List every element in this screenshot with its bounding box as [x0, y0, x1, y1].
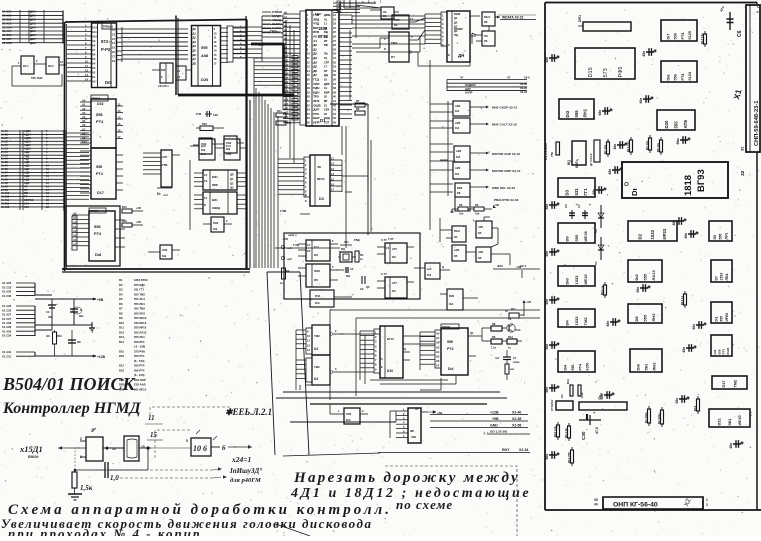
svg-text:555: 555 [673, 121, 678, 129]
svg-text:R1 С3 М15: R1 С3 М15 [544, 143, 548, 160]
svg-text:555: 555 [642, 273, 647, 281]
resistor R16 on PCB [693, 396, 700, 414]
logic gate D5.3 [452, 245, 476, 261]
resistor R17 vertical [505, 364, 515, 380]
svg-text:того: того [28, 455, 39, 460]
svg-text:А6: А6 [92, 53, 96, 57]
wire D1 pin bus from left [254, 16, 283, 85]
svg-text:Q1: Q1 [470, 331, 474, 335]
svg-text:SL: SL [324, 17, 328, 21]
svg-text:R1b 1к: R1b 1к [600, 285, 604, 295]
svg-text:( 6 - 156): ( 6 - 156) [134, 345, 145, 349]
svg-text:X2-6: X2-6 [524, 76, 530, 80]
resistor R1b on PCB [600, 282, 607, 298]
svg-text:556: 556 [571, 365, 575, 371]
svg-text:D5: D5 [478, 231, 482, 235]
svg-text:С21.26.1: С21.26.1 [158, 84, 169, 88]
resistor R6 [355, 107, 365, 115]
svg-text:8МГц: 8МГц [575, 160, 579, 168]
svg-text:МНУ СULT X2-18: МНУ СULT X2-18 [492, 123, 517, 127]
svg-text:R15: R15 [122, 205, 127, 209]
svg-text:ВQ: ВQ [567, 160, 571, 165]
svg-text:Q1: Q1 [230, 177, 234, 181]
svg-text:Dι: Dι [157, 192, 161, 196]
svg-text:ИР23: ИР23 [662, 228, 667, 239]
svg-text:561 ИЕ10: 561 ИЕ10 [134, 387, 147, 391]
wire main frame box [62, 20, 250, 273]
svg-text:68н: 68н [545, 454, 549, 460]
svg-text:R: R [204, 203, 206, 207]
node X2-4 label [493, 264, 540, 269]
capacitor C7 [495, 350, 520, 364]
svg-text:Dι: Dι [630, 188, 639, 196]
wire D1 to D11 interconnects [352, 14, 425, 52]
wire stubs right of D20 [227, 25, 246, 62]
crystal BQ [338, 247, 356, 262]
capacitor 68н on PCB [684, 230, 699, 238]
svg-text:C2: C2 [204, 179, 208, 183]
svg-text:ФАУ: ФАУ [497, 264, 503, 268]
svg-text:D4: D4 [454, 235, 458, 239]
svg-text:556 РТ4: 556 РТ4 [134, 340, 145, 344]
svg-text:А8: А8 [92, 44, 96, 48]
svg-text:R2 330к: R2 330к [644, 412, 648, 423]
svg-text:A5: A5 [73, 234, 77, 238]
svg-text:D16: D16 [97, 102, 103, 106]
svg-text:47,0: 47,0 [595, 427, 599, 434]
IC D3 on PCB [558, 178, 595, 197]
transistor V3 [507, 317, 521, 332]
svg-text:а16: а16 [284, 80, 289, 84]
IC D17 556 РТ4 [80, 148, 123, 199]
svg-text:A4: A4 [73, 229, 77, 233]
svg-text:X1 А27: X1 А27 [2, 313, 12, 317]
logic gate D19 [148, 245, 180, 259]
svg-text:ВЧ2: ВЧ2 [315, 294, 321, 298]
svg-text:MOTOR ОФР X2-10: MOTOR ОФР X2-10 [492, 169, 521, 173]
node handwriting caption line2 [1, 516, 372, 531]
IC D11 ПИ6 [425, 11, 480, 62]
svg-text:R7 10к: R7 10к [603, 144, 607, 154]
IC D11 on PCB [711, 302, 732, 323]
svg-text:1,1к: 1,1к [491, 346, 497, 350]
IC D6b on PCB [712, 376, 747, 389]
svg-text:Dч5: Dч5 [201, 152, 206, 156]
svg-text:Д4: Д4 [454, 29, 458, 33]
svg-text:а11: а11 [284, 58, 289, 62]
svg-text:D6: D6 [478, 256, 482, 260]
svg-text:Е: Е [381, 365, 383, 369]
svg-text:Q3: Q3 [230, 186, 234, 190]
svg-text:АИ3: АИ3 [455, 121, 461, 125]
svg-text:Т-РГ: Т-РГ [388, 237, 394, 241]
svg-text:556: 556 [447, 340, 453, 344]
svg-text:X1 А25: X1 А25 [2, 281, 12, 285]
node handwriting caption line3 [8, 526, 201, 541]
svg-text:R5 10к: R5 10к [656, 142, 660, 152]
resistor R2 on PCB [644, 406, 651, 426]
wire D1 left pins [283, 11, 306, 125]
svg-text:ВИ3: ВИ3 [457, 186, 463, 190]
svg-text:а12: а12 [284, 63, 289, 67]
node signal labels left of D1 [258, 10, 283, 47]
svg-text:D: D [384, 47, 386, 51]
logic gate D19.1 [190, 138, 224, 154]
svg-text:D15: D15 [588, 67, 594, 77]
svg-text:E: E [448, 53, 450, 57]
svg-text:68н: 68н [545, 387, 549, 393]
svg-text:РФ5: РФ5 [618, 67, 624, 78]
ground symbol power [35, 312, 95, 332]
svg-text:Dι2: Dι2 [455, 109, 460, 113]
resistor R1 750 on PCB [544, 142, 560, 160]
svg-text:ЧТЕНД: ЧТЕНД [272, 18, 281, 22]
svg-text:+: + [56, 302, 58, 306]
node handwriting caption line1 [8, 502, 392, 518]
svg-text:А11: А11 [92, 30, 97, 34]
svg-text:АИ1: АИ1 [478, 250, 484, 254]
capacitor 68н on PCB [675, 395, 690, 403]
svg-text:для р40ГМ: для р40ГМ [230, 477, 261, 484]
logic gate D19.3 [190, 160, 232, 232]
svg-text:Dι7: Dι7 [666, 34, 670, 40]
svg-text:C1: C1 [204, 173, 208, 177]
svg-text:ИЕ19: ИЕ19 [583, 231, 588, 242]
svg-text:Д2: Д2 [193, 36, 197, 40]
svg-text:ДД: ДД [324, 73, 328, 77]
svg-text:A3: A3 [82, 111, 86, 115]
svg-text:A1: A1 [82, 103, 86, 107]
svg-text:ИНДЕКС: ИНДЕКС [465, 83, 476, 87]
svg-text:при проходах № 4 - копир: при проходах № 4 - копир [8, 526, 201, 536]
svg-text:ВЫ1: ВЫ1 [484, 15, 490, 19]
node pin labels 11 15 [145, 414, 163, 440]
wire misc crossing nets [254, 15, 448, 268]
svg-text:X2-34: X2-34 [519, 448, 528, 452]
svg-text:R11: R11 [511, 307, 516, 311]
IC D21 АПГ [143, 150, 180, 197]
svg-text:68н: 68н [639, 98, 643, 104]
svg-text:X1 А26: X1 А26 [2, 304, 12, 308]
svg-text:ΙпИшуЗД°: ΙпИшуЗД° [229, 467, 262, 475]
svg-text:10к: 10к [287, 121, 292, 125]
svg-text:5: 5 [186, 439, 188, 443]
svg-text:573: 573 [101, 39, 109, 44]
svg-text:ПРОМ: ПРОМ [442, 325, 451, 329]
svg-text:R11: R11 [277, 109, 282, 113]
svg-text:68н: 68н [682, 347, 686, 353]
svg-text:+5В: +5В [526, 300, 531, 304]
wire box around D18 [66, 206, 120, 266]
svg-text:10: 10 [193, 444, 201, 453]
svg-text:Q6: Q6 [366, 285, 370, 289]
svg-text:556 РТ4: 556 РТ4 [134, 368, 145, 372]
flip-flop D5a ФФ1 [298, 239, 338, 261]
resistor R16 [122, 219, 143, 227]
svg-text:555 ТМ2: 555 ТМ2 [134, 307, 145, 311]
svg-text:Д6: Д6 [193, 53, 197, 57]
svg-text:Dι8: Dι8 [95, 252, 102, 257]
IC D20 on PCB [657, 110, 695, 130]
svg-text:АТУ: АТУ [392, 281, 397, 285]
svg-text:ТМ2: ТМ2 [314, 365, 320, 369]
svg-text:D7: D7 [714, 276, 718, 281]
svg-text:х24=1: х24=1 [231, 455, 251, 464]
logic gate D8.3 [455, 183, 515, 211]
svg-text:68н: 68н [636, 287, 640, 293]
svg-text:555: 555 [201, 45, 208, 50]
svg-text:D8: D8 [119, 311, 123, 315]
svg-text:D5: D5 [454, 254, 458, 258]
svg-text:X2-56: X2-56 [512, 424, 521, 428]
resistor R12 [502, 335, 522, 350]
svg-text:561: 561 [643, 363, 648, 371]
svg-text:ЛЕ4: ЛЕ4 [725, 274, 729, 281]
svg-text:D4: D4 [565, 320, 570, 326]
IC D18 556 РТ4 [72, 208, 125, 261]
svg-text:С1: С1 [577, 204, 581, 208]
svg-text:Dι3: Dι3 [315, 301, 320, 305]
svg-text:MOTOR ОНР X2-16: MOTOR ОНР X2-16 [492, 152, 520, 156]
IC D7b on PCB [711, 260, 732, 282]
IC D10 on PCB [558, 266, 595, 286]
wire vertical bus middle [256, 88, 278, 268]
svg-text:Dι3: Dι3 [427, 273, 432, 277]
svg-text:КТ315А: КТ315А [550, 399, 554, 411]
wire dashed arrows bottom [95, 467, 262, 484]
svg-text:556: 556 [674, 74, 678, 80]
svg-text:Е53 ААБ: Е53 ААБ [134, 383, 146, 387]
svg-text:D2: D2 [638, 233, 643, 239]
svg-text:С2: С2 [307, 249, 311, 253]
svg-text:82к: 82к [346, 274, 351, 278]
capacitor 68н on PCB [613, 141, 628, 149]
wire PCB board outline [545, 3, 761, 511]
wire D20 to bus interconnects [233, 16, 262, 62]
svg-text:ЛН1: ЛН1 [583, 108, 588, 117]
logic gate D4.1 [12, 56, 46, 74]
svg-text:С9: С9 [360, 287, 364, 291]
logic gate D45.1 [193, 139, 224, 160]
svg-text:R3 220к: R3 220к [657, 413, 661, 424]
svg-text:X1 С23: X1 С23 [2, 285, 12, 289]
svg-text:A10: A10 [82, 140, 87, 144]
svg-text:X1 С29: X1 С29 [2, 334, 12, 338]
IC D12 on PCB [628, 260, 662, 282]
svg-text:Нарезать дорожку между: Нарезать дорожку между [293, 470, 520, 486]
IC D18 on PCB [711, 335, 732, 356]
capacitor C8 [68, 330, 82, 356]
svg-text:А06: А06 [201, 53, 209, 58]
svg-text:D17: D17 [97, 191, 104, 195]
IC D15 on PCB [575, 48, 635, 79]
resistor R3 on PCB [657, 407, 664, 427]
node parts list table [119, 278, 148, 391]
svg-text:+5В: +5В [136, 206, 141, 210]
svg-text:Дч2: Дч2 [201, 144, 206, 148]
svg-text:D14: D14 [119, 340, 125, 344]
svg-text:10к: 10к [475, 212, 480, 216]
svg-text:СНП-59-648-23-1: СНП-59-648-23-1 [754, 100, 760, 146]
logic gate D12.3 [454, 146, 520, 162]
svg-text:7КУ1: 7КУ1 [270, 29, 277, 33]
svg-text:Контроллер НГМД: Контроллер НГМД [2, 400, 142, 417]
svg-text:A7: A7 [436, 364, 440, 368]
svg-text:Д1: Д1 [193, 31, 197, 35]
svg-text:ПРОМ: ПРОМ [90, 209, 99, 213]
svg-text:РчЗ: РчЗ [226, 144, 231, 148]
svg-text:ВГ93: ВГ93 [696, 169, 707, 192]
svg-text:556 РТ4: 556 РТ4 [134, 354, 145, 358]
svg-text:РВД: РВД [354, 238, 360, 242]
svg-text:GND: GND [490, 424, 498, 428]
IC D2 ИД5 [278, 155, 342, 206]
svg-text:1533: 1533 [574, 275, 579, 285]
svg-text:ЛН2: ЛН2 [213, 221, 219, 225]
logic gate D6.2 [383, 15, 415, 29]
resistor R5 on PCB [656, 137, 663, 155]
capacitor 68н on PCB [545, 341, 560, 349]
svg-text:1818 ВГ93: 1818 ВГ93 [134, 278, 148, 282]
svg-text:68н: 68н [672, 220, 676, 226]
svg-text:С: С [381, 357, 383, 361]
connector X1 СНП-59-648-23-1 [732, 5, 760, 152]
node WDATA output [497, 15, 536, 20]
svg-text:ИНД: ИНД [324, 116, 330, 120]
svg-text:556: 556 [94, 224, 101, 229]
svg-text:Dι3: Dι3 [565, 110, 570, 117]
svg-text:D9: D9 [392, 289, 396, 293]
svg-text:✱ЕЕЬ.Л.2.1: ✱ЕЕЬ.Л.2.1 [225, 407, 272, 417]
resistor R13 on PCB [700, 31, 707, 47]
node title В504/01 ПОИСК [2, 374, 142, 417]
capacitor 68н on PCB [545, 384, 560, 392]
svg-text:(6 - 126): (6 - 126) [134, 373, 144, 377]
svg-text:ИРИ6: ИРИ6 [725, 313, 729, 322]
svg-text:ВД: ВД [324, 30, 328, 34]
svg-text:Д7: Д7 [193, 57, 197, 61]
svg-text:ТМ2: ТМ2 [391, 41, 397, 45]
wire D5 cluster nets [440, 218, 510, 265]
svg-text:С.ТУ: С.ТУ [381, 238, 387, 242]
svg-text:А9: А9 [92, 39, 96, 43]
svg-text:68н: 68н [592, 189, 596, 195]
svg-text:Т-РД: Т-РД [293, 243, 299, 247]
svg-text:6124: 6124 [688, 71, 692, 80]
svg-text:X1 С28: X1 С28 [2, 325, 12, 329]
capacitor 68н on PCB [639, 95, 654, 103]
svg-text:X1 С26: X1 С26 [2, 308, 12, 312]
node power net labels X2 [430, 411, 530, 436]
svg-text:Dι2: Dι2 [455, 172, 460, 176]
IC D14 556 РТ4 [420, 324, 476, 375]
svg-text:а17: а17 [284, 85, 289, 89]
wire dashed region border [385, 466, 517, 536]
svg-text:R18: R18 [202, 122, 207, 126]
svg-text:1533: 1533 [720, 273, 724, 281]
svg-text:68н: 68н [642, 51, 646, 57]
svg-text:533 ИЕ10: 533 ИЕ10 [134, 321, 147, 325]
svg-text:+5В: +5В [283, 237, 288, 241]
svg-text:D12: D12 [119, 330, 125, 334]
svg-text:ДИР: ДИР [324, 82, 330, 86]
svg-text:С.ТУ: С.ТУ [381, 272, 387, 276]
svg-text:68н: 68н [613, 144, 617, 150]
svg-text:D7: D7 [391, 55, 395, 59]
svg-text:Dι4: Dι4 [448, 367, 454, 371]
svg-text:2: 2 [706, 503, 708, 507]
svg-text:750: 750 [550, 152, 554, 157]
svg-text:R8: R8 [492, 322, 496, 326]
resistor R15 on PCB [680, 291, 687, 308]
delay line DR1 on PCB [578, 15, 631, 31]
IC D16 on PCB [661, 61, 697, 82]
svg-text:он2: он2 [287, 257, 292, 261]
svg-text:ГГ1: ГГ1 [583, 188, 588, 196]
resistor R4 on PCB [645, 135, 652, 153]
flip-flop D7 ТМ2 [380, 32, 418, 62]
svg-text:ВЫ1: ВЫ1 [454, 229, 460, 233]
svg-text:ВИ1: ВИ1 [449, 294, 455, 298]
capacitor C2 osc [336, 267, 354, 278]
svg-text:555 ИД5: 555 ИД5 [134, 283, 145, 287]
delay line DR2 on PCB [579, 392, 627, 410]
svg-text:A0: A0 [73, 212, 77, 216]
capacitor 68н on PCB [642, 48, 657, 56]
svg-text:ОНП КГ-56-40: ОНП КГ-56-40 [613, 502, 658, 509]
svg-text:А0: А0 [92, 80, 96, 84]
svg-text:Dι9: Dι9 [162, 254, 167, 258]
svg-text:D8: D8 [634, 316, 639, 322]
capacitor 68н on PCB [592, 186, 607, 194]
svg-text:АИ3: АИ3 [456, 149, 462, 153]
resistor R11a [276, 109, 292, 125]
svg-text:6: 6 [203, 444, 207, 453]
svg-text:Д3: Д3 [454, 25, 458, 29]
capacitor C bottom 1,0 [75, 448, 148, 482]
svg-text:531: 531 [574, 188, 579, 196]
svg-text:D3: D3 [314, 253, 318, 257]
IC D1 1818 ВГ93 on PCB [622, 162, 746, 198]
logic gate D4.2 [12, 57, 66, 86]
svg-text:С7: С7 [513, 356, 517, 360]
capacitor C4 electrolytic [46, 299, 58, 330]
svg-text:Д2: Д2 [454, 20, 458, 24]
svg-text:Dι9: Dι9 [201, 148, 206, 152]
wire thick trunk [178, 16, 294, 268]
svg-text:ФФ2: ФФ2 [314, 269, 320, 273]
ground bottom [68, 494, 82, 500]
svg-text:555 АН1: 555 АН1 [134, 297, 145, 301]
svg-text:Dι2: Dι2 [455, 126, 460, 130]
wire X2 bus lines [447, 76, 530, 95]
svg-text:+5В: +5В [97, 298, 104, 302]
node T-RG label [275, 209, 394, 248]
logic gate D6.3 [476, 247, 510, 262]
svg-text:Dι3: Dι3 [346, 418, 351, 422]
svg-text:68н: 68н [684, 233, 688, 239]
logic gate D12.2 [453, 118, 517, 133]
svg-text:ЧБ: ЧБ [317, 165, 321, 169]
resistor R5 [482, 335, 502, 350]
svg-text:+5В: +5В [492, 417, 499, 421]
svg-text:V3: V3 [508, 317, 512, 321]
svg-text:ИЕ10: ИЕ10 [583, 274, 588, 285]
svg-text:ЗПД: ЗПД [336, 9, 342, 13]
svg-text:ТМ2: ТМ2 [583, 317, 588, 326]
svg-text:555: 555 [720, 316, 724, 322]
svg-text:а18: а18 [284, 89, 289, 93]
